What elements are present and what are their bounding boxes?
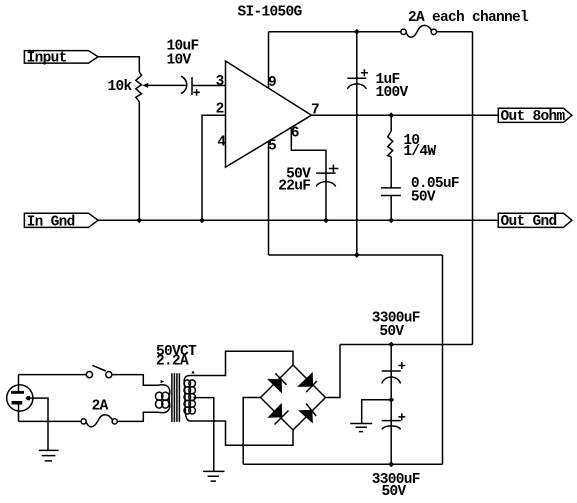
svg-text:50V: 50V [382,484,407,500]
plug ground prong wire [30,398,48,450]
diode D3 bottom-left [267,403,282,418]
bridge negative output wire [243,398,260,465]
pin 5 wire to lower rail [268,141,270,255]
secondary top wire to bridge [191,351,294,375]
plus sign 3300uF bottom [398,413,405,420]
plus sign 22uF [329,165,338,173]
svg-text:2A each channel: 2A each channel [408,10,529,26]
earth ground mains [39,450,59,461]
lower rail pin5 to supply [269,254,443,256]
wire switch to transformer primary top [112,375,158,386]
-V rail [243,463,442,465]
svg-text:4: 4 [217,134,226,150]
wire potentiometer bottom to ground rail [138,102,140,221]
fuse 2A mains right terminal [112,419,117,424]
AC plug prong ground [25,396,30,400]
potentiometer 10k [136,72,142,102]
capacitor 3300uF bottom curved plate [382,426,401,430]
transformer primary winding [156,385,170,413]
svg-text:SI-1050G: SI-1050G [238,5,302,21]
secondary phase arrow [191,371,195,374]
bridge positive output wire [326,345,341,398]
resistor 10 1/4W [390,115,392,131]
svg-text:7: 7 [311,103,319,119]
wire fuse to transformer primary bottom [117,412,158,421]
in gnd tag [24,213,98,227]
node top rail / 1uF [354,29,360,35]
node pin7 / resistor branch [388,112,394,118]
pin 2 wire to ground rail [202,115,226,220]
center tap wire [194,398,214,472]
plus sign 10uF [193,89,200,96]
svg-text:50V: 50V [379,324,404,340]
capacitor 0.05uF plates [381,188,401,196]
plus sign 3300uF top [398,362,405,369]
node 0.05uF / ground rail [388,217,394,223]
wire input tag to potentiometer top [98,57,139,72]
potentiometer wiper arrow [142,83,148,88]
svg-text:100V: 100V [376,85,409,101]
wire plug to switch [19,374,87,376]
+V rail to right supply rail [340,344,473,346]
wire capacitor to pin 3 [192,85,226,87]
node pot / ground rail [136,217,142,223]
ground rail from In Gnd to Out Gnd [98,219,498,221]
fuse 2A element [406,25,431,37]
svg-text:Out 8ohm: Out 8ohm [501,109,566,125]
svg-text:22uF: 22uF [278,178,310,194]
plug top lead [18,375,20,391]
node -V rail / cap chain [388,461,394,467]
plus sign 1uF [361,69,368,76]
wire 0.05uF to ground rail [390,196,392,221]
bridge rectifier outline [261,365,326,430]
earth ground supply center [350,424,372,432]
AC plug prong neutral [11,391,24,394]
diode D1 top-left [267,379,282,394]
capacitor 1uF straight plate [347,77,366,79]
wire plug to fuse [19,420,82,422]
wire resistor to 0.05uF [390,157,392,188]
top rail with fuse [269,31,401,33]
primary phase arrow [161,380,165,383]
right supply rail [472,32,474,345]
out 8ohm tag [498,108,572,122]
wire lower rail down to -V rail [442,255,444,464]
capacitor 22uF straight plate [316,172,335,174]
capacitor 10uF straight plate [191,77,193,95]
node pin2 / ground rail [199,217,205,223]
svg-text:10V: 10V [167,53,192,69]
diode D2 top-right [297,372,313,387]
node +V rail / cap chain [388,342,394,348]
capacitor 3300uF top curved plate [382,377,401,384]
top rail after fuse [437,31,473,33]
node between capacitors [388,397,394,403]
switch left terminal [86,372,92,378]
plug bottom lead [18,404,20,422]
fuse 2A mains left terminal [81,419,86,424]
capacitor 3300uF top lead [390,345,392,400]
svg-text:3: 3 [216,74,224,90]
svg-text:2A: 2A [92,399,109,415]
fuse 2A right terminal [431,29,436,34]
pin 9 wire to top rail [268,32,270,88]
capacitor 3300uF bottom straight plate [382,420,401,422]
svg-text:2.2A: 2.2A [156,354,189,370]
pin 6 wire to 22uF [291,127,326,220]
svg-text:1/4W: 1/4W [403,144,436,160]
AC plug body [7,385,33,411]
AC plug prong live [12,401,23,405]
fuse 2A left terminal [401,29,406,34]
fuse 2A mains element [86,415,112,427]
earth ground center tap [203,471,224,481]
svg-text:10k: 10k [108,79,133,95]
op-amp U1 body [226,61,312,167]
pin 7 output wire [312,114,499,116]
switch blade [92,365,105,371]
diode D4 bottom-right [298,410,313,424]
transformer core [172,373,180,422]
capacitor 3300uF top straight plate [382,370,401,372]
node 22uF / ground rail [323,217,329,223]
capacitor 10uF curved plate [181,76,187,93]
capacitor 1uF lead [356,32,358,255]
out gnd tag [498,213,572,227]
capacitor 22uF curved plate [316,182,335,187]
node 1uF / lower rail [354,252,360,258]
svg-text:50V: 50V [411,190,436,206]
transformer secondary winding [184,375,195,421]
secondary bottom wire to bridge [191,421,294,445]
svg-text:Input: Input [27,51,67,67]
svg-text:In Gnd: In Gnd [27,214,75,230]
capacitor 3300uF bottom top lead [390,400,392,465]
capacitor 1uF curved plate [347,84,366,89]
svg-text:Out Gnd: Out Gnd [501,214,557,230]
switch right terminal [106,372,112,378]
input tag [24,51,98,64]
ground wire between caps [362,400,392,424]
